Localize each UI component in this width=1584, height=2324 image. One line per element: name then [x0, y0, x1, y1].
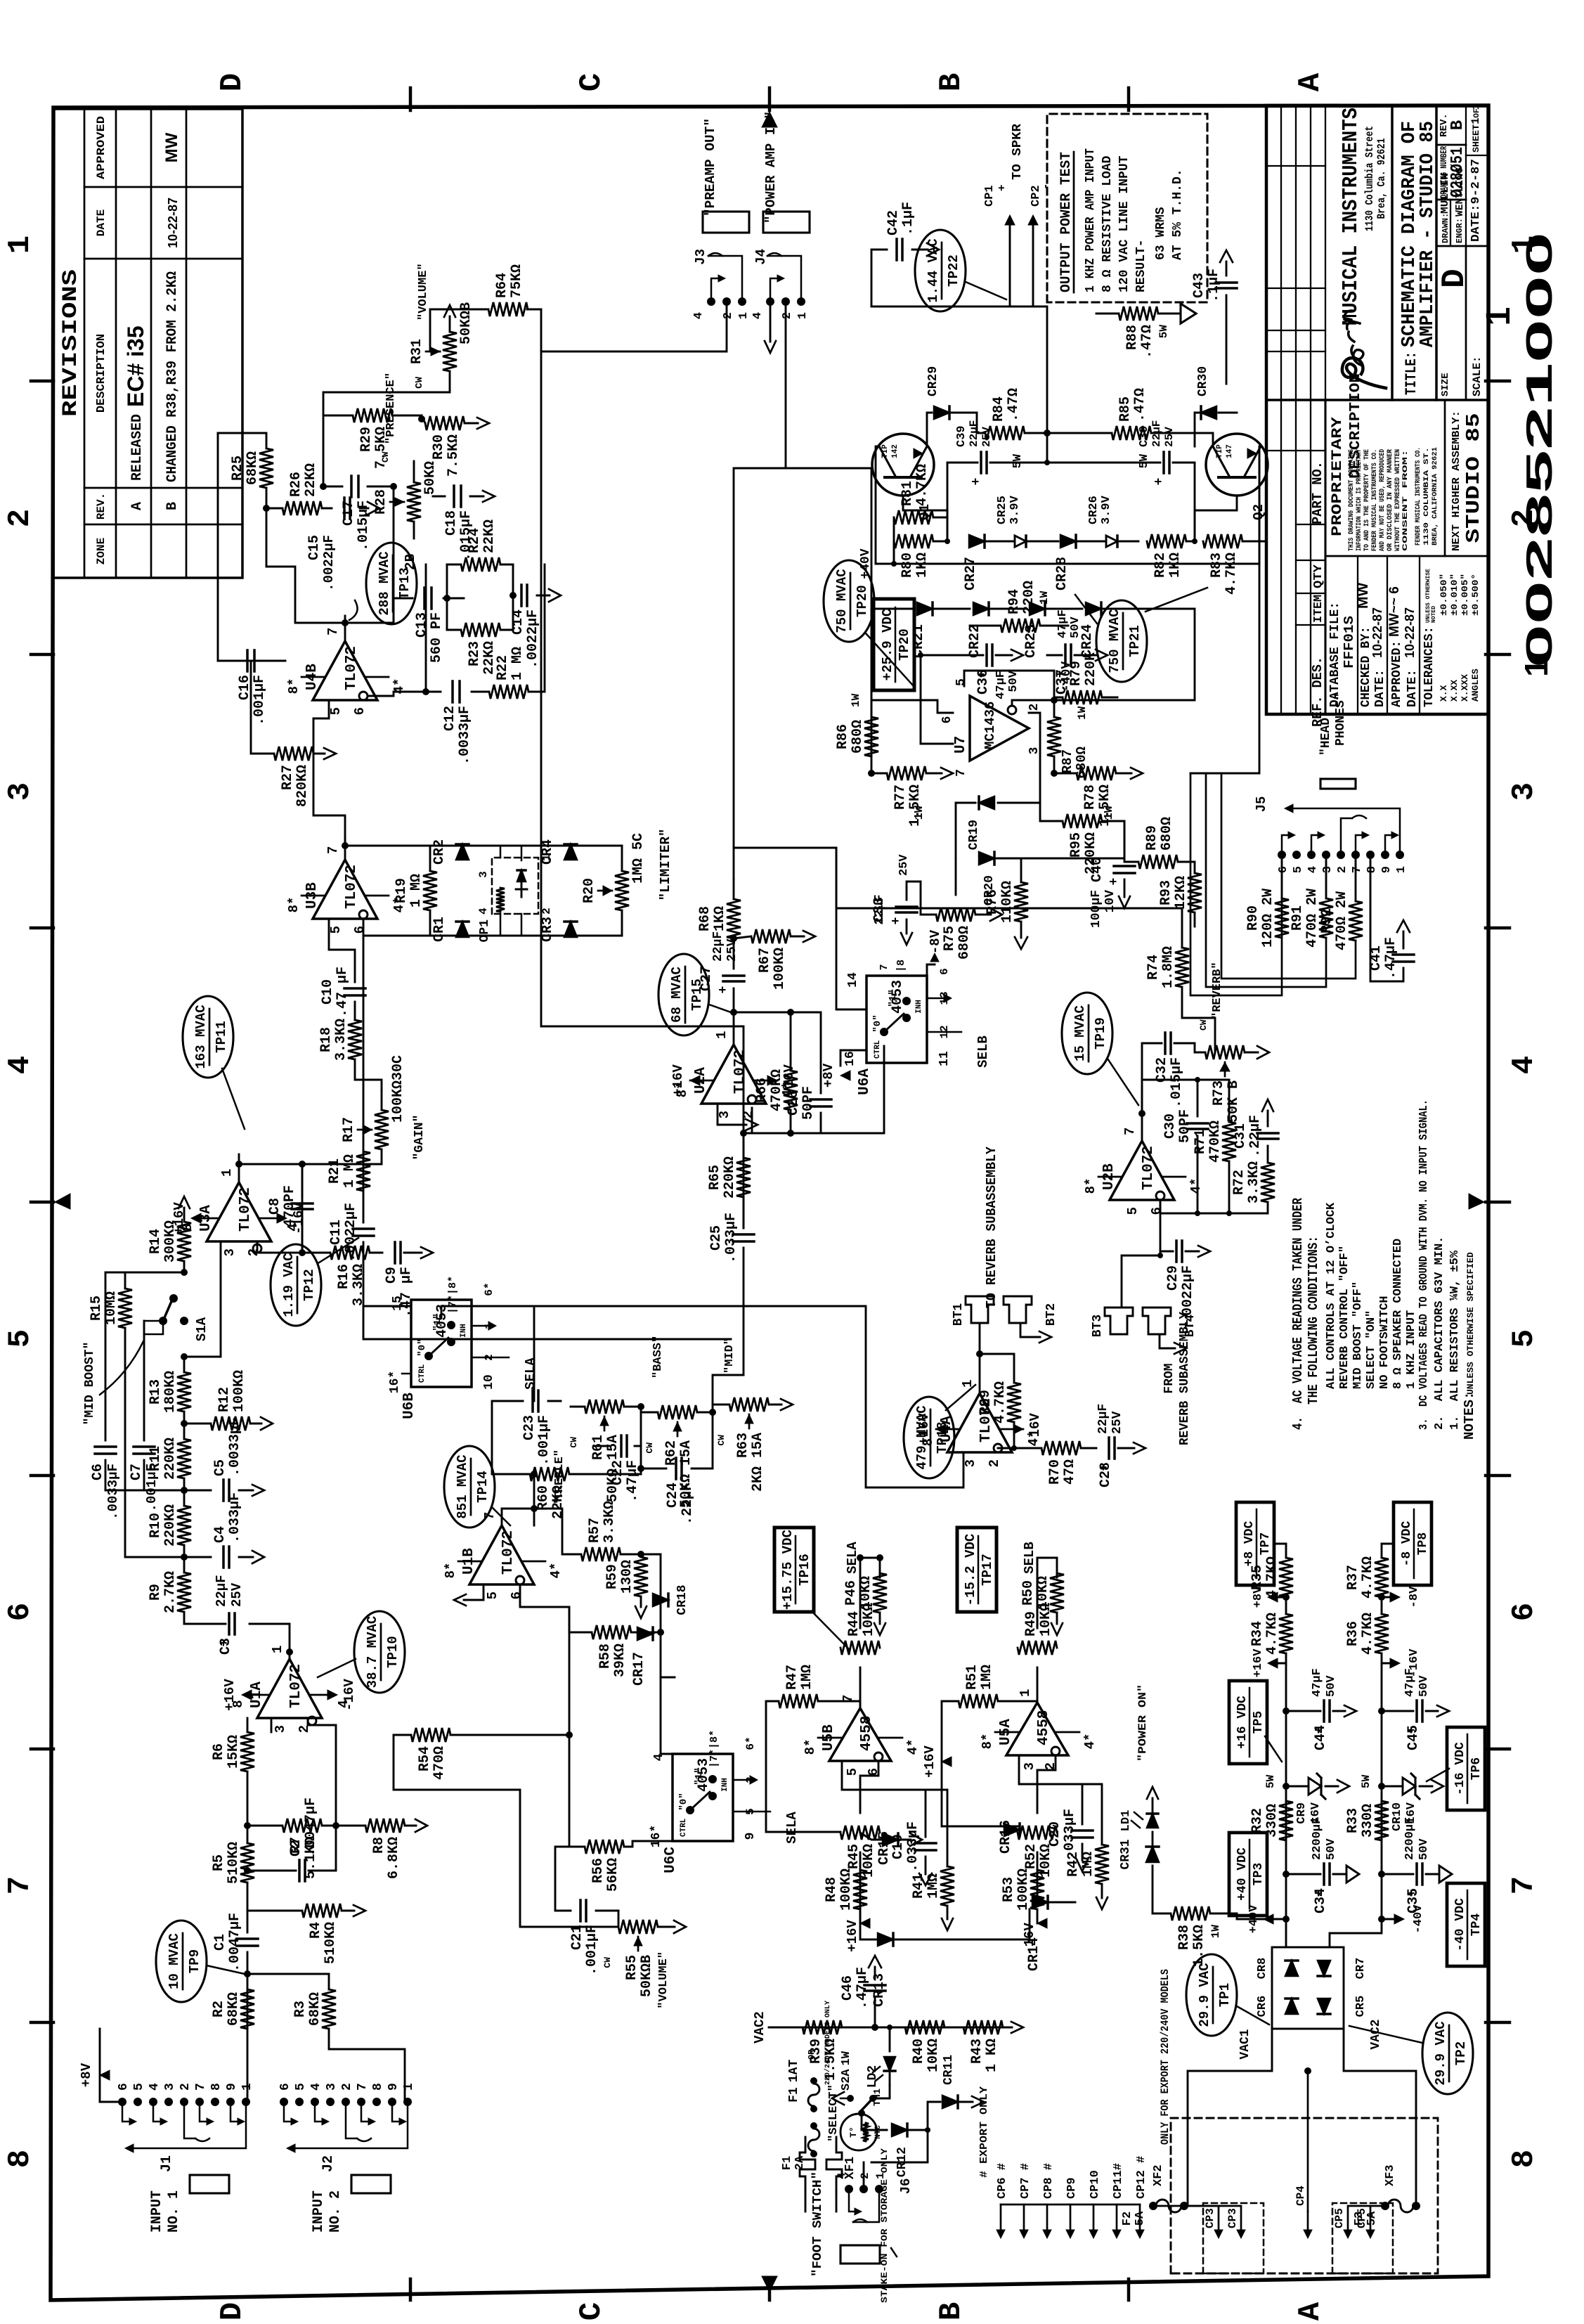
svg-text:F1: F1 — [787, 2087, 801, 2103]
svg-text:C36: C36 — [975, 669, 992, 695]
svg-text:CP7 #: CP7 # — [1019, 2163, 1032, 2199]
svg-text:3: 3 — [1022, 1762, 1037, 1770]
mid pot R63 — [729, 1397, 769, 1412]
svg-text:D: D — [215, 2302, 250, 2320]
svg-text:ANGLES: ANGLES — [1470, 669, 1481, 702]
svg-text:C39: C39 — [955, 425, 968, 447]
U6A to feedback node — [821, 1046, 884, 1133]
svg-text:STUDIO 85: STUDIO 85 — [1464, 413, 1485, 543]
output power test box — [1047, 114, 1207, 302]
svg-text:R86: R86 — [835, 724, 851, 749]
op-amp U1A — [257, 1659, 322, 1718]
svg-text:R95: R95 — [1068, 832, 1084, 858]
svg-text:TP8: TP8 — [1416, 1532, 1430, 1555]
svg-text:2: 2 — [297, 1725, 312, 1733]
size row — [1435, 105, 1438, 400]
resistor R23 22K — [461, 623, 500, 637]
svg-text:B: B — [934, 73, 969, 91]
svg-text:CP12 #: CP12 # — [1135, 2156, 1148, 2199]
svg-text:7: 7 — [954, 769, 968, 777]
svg-text:R27: R27 — [280, 765, 296, 790]
capacitor C40 100uF — [1114, 872, 1135, 874]
svg-text:1: 1 — [1018, 1689, 1033, 1697]
svg-text:22μF: 22μF — [214, 1575, 229, 1607]
+16V arrow — [1273, 1663, 1286, 1665]
svg-text:7: 7 — [482, 1512, 498, 1520]
op-amp U4B — [313, 641, 377, 700]
svg-text:5: 5 — [132, 2083, 146, 2091]
svg-text:50PF: 50PF — [1177, 1109, 1193, 1143]
svg-text:1W: 1W — [1209, 1925, 1222, 1939]
svg-text:TP20: TP20 — [897, 628, 912, 661]
svg-text:R72: R72 — [1231, 1170, 1247, 1195]
capacitor C31 .22uF — [1257, 1137, 1278, 1140]
bass pot R62 — [658, 1405, 697, 1419]
test point TP16 box — [774, 1528, 814, 1612]
diode CR3 — [564, 922, 577, 937]
svg-text:CR9: CR9 — [1295, 1802, 1309, 1824]
capacitor C21 .001uF — [579, 1900, 582, 1921]
svg-text:147: 147 — [1226, 444, 1234, 458]
resistor R11 220K — [177, 1439, 191, 1478]
diode CR19 — [998, 713, 1040, 803]
svg-text:R55: R55 — [624, 1955, 640, 1980]
svg-text:U6A: U6A — [857, 1069, 873, 1095]
svg-text:R30: R30 — [431, 434, 447, 460]
power amp in jack J4 — [763, 212, 810, 233]
svg-text:"1": "1" — [694, 1767, 705, 1785]
svg-text:PART NO.: PART NO. — [1310, 461, 1325, 524]
svg-text:CW: CW — [414, 376, 425, 388]
svg-text:C40: C40 — [1089, 857, 1105, 882]
svg-text:.001μF: .001μF — [536, 1415, 552, 1466]
svg-text:.001μF: .001μF — [584, 1925, 600, 1975]
svg-text:VAC2: VAC2 — [752, 2011, 767, 2044]
svg-text:"MID": "MID" — [723, 1338, 736, 1374]
svg-text:25V: 25V — [725, 938, 739, 962]
resistor R88 .47 5W — [1119, 306, 1158, 321]
U2A pin2 wire — [744, 1108, 752, 1133]
svg-text:100KΩ: 100KΩ — [838, 1868, 855, 1911]
test point TP4 box — [1447, 1883, 1485, 1966]
svg-text:INFORMATION WHICH IS PROPRIETA: INFORMATION WHICH IS PROPRIETARY — [1356, 449, 1363, 551]
svg-text:DATE:: DATE: — [1373, 669, 1387, 707]
capacitor C43 .1uF — [1216, 287, 1237, 290]
svg-text:C2: C2 — [288, 1840, 304, 1857]
svg-text:-16V: -16V — [1027, 1413, 1043, 1445]
svg-text:TL072: TL072 — [1141, 1146, 1157, 1190]
resistor R4 — [247, 1910, 302, 1912]
diode CR18 — [653, 1594, 668, 1606]
svg-text:TP12: TP12 — [301, 1269, 317, 1301]
svg-text:D: D — [1436, 269, 1473, 288]
svg-text:2: 2 — [540, 908, 553, 915]
svg-text:1KΩ: 1KΩ — [914, 553, 930, 578]
test point TP20 box — [874, 599, 914, 690]
svg-text:CR23: CR23 — [1023, 624, 1039, 658]
resistor R89 680 — [1138, 855, 1178, 869]
svg-text:TP1: TP1 — [1217, 1983, 1233, 2007]
svg-text:R51: R51 — [964, 1665, 980, 1690]
capacitor C20 .033uF — [1072, 1836, 1093, 1839]
diode ladder CR27 CR25 CR28 CR26 — [969, 535, 985, 548]
diode CR2 — [456, 844, 469, 860]
svg-text:C46: C46 — [840, 1975, 856, 2001]
resistor R65 220K — [736, 1158, 751, 1197]
test point TP15 — [658, 954, 709, 1035]
limiter rail A — [345, 846, 432, 852]
svg-text:C17: C17 — [341, 501, 357, 526]
U3A +16V — [191, 1213, 201, 1223]
svg-text:8: 8 — [1507, 2150, 1542, 2168]
svg-text:.0033μF: .0033μF — [105, 1464, 121, 1520]
svg-text:C45: C45 — [1406, 1725, 1422, 1750]
svg-text:100KΩ: 100KΩ — [231, 1370, 247, 1412]
svg-text:1.5KΩ: 1.5KΩ — [1191, 1925, 1207, 1967]
svg-text:1 MΩ: 1 MΩ — [342, 1154, 358, 1188]
test point TP5 box — [1229, 1681, 1267, 1764]
svg-text:CR22: CR22 — [967, 624, 983, 658]
svg-text:C15: C15 — [306, 535, 323, 560]
svg-text:+16 VDC: +16 VDC — [1235, 1696, 1249, 1749]
svg-text:330Ω: 330Ω — [1360, 1804, 1376, 1838]
svg-text:.0033μF: .0033μF — [457, 706, 473, 765]
resistor R8 — [336, 1825, 365, 1827]
node R5-R7 — [244, 1822, 251, 1829]
svg-text:TH1: TH1 — [872, 2089, 883, 2106]
svg-text:CW: CW — [602, 1957, 613, 1968]
svg-text:C18: C18 — [443, 510, 460, 536]
SELA label U6B — [472, 1357, 509, 1359]
svg-text:DRAWING NUMBER: DRAWING NUMBER — [1439, 146, 1449, 198]
footswitch J6 wires — [928, 2130, 984, 2189]
svg-text:851 MVAC: 851 MVAC — [455, 1454, 470, 1518]
svg-text:9: 9 — [744, 1833, 758, 1840]
svg-text:CR10: CR10 — [1391, 1802, 1404, 1831]
capacitor C24 .22uF — [675, 1458, 677, 1479]
svg-text:680Ω: 680Ω — [1159, 817, 1175, 851]
svg-text:29.9 VAC: 29.9 VAC — [1197, 1963, 1212, 2027]
svg-text:R75: R75 — [942, 926, 958, 951]
center arrows — [55, 1194, 70, 1209]
svg-text:# EXPORT ONLY: # EXPORT ONLY — [978, 2086, 990, 2178]
svg-text:"MID BOOST": "MID BOOST" — [83, 1342, 97, 1426]
svg-text:47μF: 47μF — [994, 671, 1008, 699]
svg-text:10 MVAC: 10 MVAC — [167, 1933, 182, 1989]
svg-text:B: B — [164, 502, 181, 510]
svg-text:R48: R48 — [824, 1877, 840, 1902]
svg-text:1 KHZ POWER AMP INPUT: 1 KHZ POWER AMP INPUT — [1084, 148, 1098, 292]
svg-text:5A: 5A — [1134, 2211, 1147, 2226]
U4A feedback R69 — [980, 1354, 1014, 1383]
svg-text:C11: C11 — [328, 1220, 344, 1245]
svg-text:.015μF: .015μF — [1169, 1057, 1185, 1108]
U1A +16V — [242, 1690, 252, 1700]
svg-text:R18: R18 — [318, 1027, 335, 1052]
wire BT3 to U2B — [1122, 1200, 1160, 1308]
+8V arrow mid — [1273, 1596, 1286, 1599]
svg-text:J2: J2 — [320, 2155, 337, 2172]
svg-text:R33: R33 — [1345, 1808, 1361, 1833]
svg-text:CP6 #: CP6 # — [996, 2163, 1009, 2199]
resistor R82 1K — [1147, 534, 1186, 548]
svg-text:R74: R74 — [1145, 955, 1162, 980]
U1B pin5 wire — [464, 1584, 483, 1600]
svg-text:TIP: TIP — [1216, 444, 1224, 458]
U3B pin6 circle — [359, 910, 368, 919]
reverb pot R73 — [1195, 1043, 1205, 1052]
svg-text:25V: 25V — [980, 427, 993, 447]
svg-text:TP18: TP18 — [935, 1421, 950, 1454]
svg-text:6: 6 — [940, 716, 954, 724]
headphone feed wires — [1190, 773, 1282, 995]
svg-text:TP3: TP3 — [1252, 1863, 1266, 1885]
svg-text:3: 3 — [163, 2083, 177, 2091]
svg-text:2: 2 — [340, 2083, 354, 2091]
svg-text:47μF: 47μF — [1056, 609, 1070, 638]
svg-text:R17: R17 — [341, 1117, 357, 1142]
svg-text:MW: MW — [1355, 583, 1371, 609]
svg-text:±0.050": ±0.050" — [1439, 574, 1449, 616]
svg-text:R85: R85 — [1117, 396, 1134, 422]
svg-text:ONLY FOR EXPORT 220/240V MODEL: ONLY FOR EXPORT 220/240V MODELS — [1159, 1969, 1171, 2145]
resistor R56 56K — [585, 1840, 624, 1854]
svg-text:C6: C6 — [90, 1464, 106, 1480]
svg-text:4.7KΩ: 4.7KΩ — [1223, 553, 1240, 595]
svg-text:50K B: 50K B — [1226, 1080, 1242, 1123]
svg-text:CR1: CR1 — [431, 917, 448, 942]
svg-text:UNLESS OTHERWISE SPECIFIED: UNLESS OTHERWISE SPECIFIED — [1465, 1252, 1476, 1395]
svg-text:C35: C35 — [1406, 1888, 1422, 1913]
svg-text:510KΩ: 510KΩ — [323, 1922, 339, 1964]
svg-text:5: 5 — [1507, 1329, 1542, 1348]
U2B feedback C30 — [1160, 1136, 1197, 1213]
test point TP17 box — [957, 1528, 997, 1612]
svg-text:3: 3 — [1507, 782, 1542, 801]
svg-text:R29: R29 — [358, 427, 375, 452]
resistor R81 4.7K — [894, 510, 933, 524]
svg-text:"0": "0" — [678, 1793, 689, 1810]
svg-text:FROM: FROM — [1162, 1363, 1176, 1393]
svg-text:+16V: +16V — [922, 1745, 937, 1778]
wire to U6C net — [661, 1632, 675, 1677]
svg-text:7.5KΩ: 7.5KΩ — [446, 434, 462, 477]
CP4 arrow — [1307, 2212, 1309, 2233]
capacitor C37 47uF — [1064, 645, 1067, 666]
svg-text:C: C — [574, 73, 609, 91]
svg-text:R36: R36 — [1345, 1621, 1361, 1646]
svg-text:AT 5% T.H.D.: AT 5% T.H.D. — [1171, 169, 1185, 260]
revision table — [53, 109, 242, 578]
svg-text:R77: R77 — [892, 785, 909, 810]
svg-text:10: 10 — [482, 1374, 496, 1390]
svg-text:-40V: -40V — [1060, 661, 1074, 692]
svg-text:CR19: CR19 — [967, 820, 981, 850]
svg-text:15KΩ: 15KΩ — [226, 1735, 242, 1769]
svg-text:1: 1 — [219, 1169, 235, 1177]
proprietary block — [1325, 555, 1488, 557]
svg-text:"POWER AMP IN": "POWER AMP IN" — [763, 111, 779, 224]
test point TP22 — [915, 230, 966, 311]
svg-text:TP20: TP20 — [855, 585, 870, 617]
svg-text:R84: R84 — [991, 396, 1007, 422]
svg-text:RESULT-: RESULT- — [1134, 239, 1148, 292]
svg-text:FENDER MUSICAL INSTRUMENTS CO.: FENDER MUSICAL INSTRUMENTS CO. — [1371, 449, 1379, 551]
svg-text:A: A — [129, 502, 145, 510]
limiter rail B — [363, 919, 622, 936]
svg-text:1 KHZ INPUT: 1 KHZ INPUT — [1405, 1310, 1418, 1389]
svg-text:NOTED: NOTED — [1431, 606, 1437, 623]
zener CR10 16V — [1378, 1783, 1385, 1790]
svg-text:D: D — [215, 73, 250, 91]
svg-text:CW: CW — [644, 1442, 655, 1454]
select switch S2A — [877, 2085, 890, 2098]
svg-text:100μF: 100μF — [1089, 890, 1103, 928]
svg-text:5: 5 — [328, 707, 344, 715]
svg-text:1.8MΩ: 1.8MΩ — [1160, 946, 1176, 988]
svg-text:A: A — [1293, 2302, 1328, 2320]
op-amp U7 MC1436 — [970, 696, 1029, 761]
svg-text:16*: 16* — [388, 1371, 402, 1393]
svg-text:3: 3 — [717, 1111, 732, 1118]
capacitor C46 .47uF — [874, 1998, 876, 2027]
resistor R48 100K — [853, 1870, 867, 1909]
capacitor C25 .033uF — [733, 1240, 754, 1243]
U2A -16V — [767, 1076, 777, 1085]
-40V arrow — [1382, 1918, 1398, 1920]
svg-text:+16V: +16V — [222, 1679, 238, 1711]
svg-text:"PREAMP OUT": "PREAMP OUT" — [703, 118, 718, 217]
capacitor C6 .0033 — [95, 1452, 116, 1455]
svg-text:2KΩ 15A: 2KΩ 15A — [750, 1433, 766, 1492]
svg-text:1: 1 — [737, 312, 751, 319]
diode CR14 — [1032, 1896, 1048, 1909]
resistor R58 39K — [592, 1625, 631, 1639]
svg-text:4. AC VOLTAGE READINGS TAKEN: 4. AC VOLTAGE READINGS TAKEN UNDER — [1290, 1198, 1306, 1430]
input jack J1 — [118, 2098, 126, 2106]
svg-text:7: 7 — [325, 846, 341, 854]
svg-text:"0": "0" — [417, 1338, 428, 1356]
svg-text:+: + — [970, 478, 984, 486]
svg-text:4: 4 — [692, 312, 706, 319]
svg-text:R43: R43 — [969, 2039, 985, 2064]
svg-text:DATE:: DATE: — [1406, 669, 1420, 707]
svg-text:3.3KΩ: 3.3KΩ — [333, 1019, 349, 1061]
svg-text:NEXT HIGHER ASSEMBLY:: NEXT HIGHER ASSEMBLY: — [1450, 411, 1462, 551]
capacitor C15 .0022uF — [343, 498, 346, 519]
svg-text:"0": "0" — [872, 1014, 883, 1032]
svg-text:R53: R53 — [1001, 1877, 1017, 1902]
svg-text:1 MΩ: 1 MΩ — [509, 647, 526, 680]
svg-text:25V: 25V — [1110, 1411, 1124, 1434]
resistor R51 1M — [959, 1694, 998, 1708]
svg-text:5W: 5W — [1264, 1774, 1277, 1788]
svg-text:4: 4 — [1306, 866, 1320, 873]
svg-text:|7*|8*: |7*|8* — [708, 1730, 720, 1768]
svg-text:4.7KΩ: 4.7KΩ — [992, 1381, 1008, 1424]
wire J2 to R3 — [329, 2029, 405, 2102]
svg-text:10KΩ: 10KΩ — [861, 1603, 877, 1637]
svg-text:TL072: TL072 — [238, 1187, 254, 1232]
svg-text:.033μF: .033μF — [905, 1821, 921, 1872]
svg-text:16: 16 — [843, 1051, 857, 1066]
U4B output — [344, 616, 346, 641]
svg-text:J5: J5 — [1254, 796, 1269, 813]
svg-text:+: + — [996, 184, 1008, 191]
svg-text:680Ω: 680Ω — [1074, 747, 1089, 779]
transistor Q1 TIP142 — [872, 434, 934, 496]
svg-text:C8: C8 — [267, 1198, 283, 1215]
+40V arrow — [1269, 1918, 1286, 1920]
svg-text:C9: C9 — [384, 1267, 400, 1284]
resistor R75 680 — [936, 908, 975, 922]
svg-text:R28: R28 — [373, 489, 389, 515]
svg-text:3.9V: 3.9V — [1008, 495, 1022, 524]
svg-text:C: C — [574, 2302, 609, 2320]
svg-text:163 MVAC: 163 MVAC — [193, 1005, 209, 1069]
svg-text:REVERB CONTROL "OFF": REVERB CONTROL "OFF" — [1338, 1246, 1351, 1389]
svg-text:CP3: CP3 — [1204, 2208, 1216, 2228]
svg-text:R26: R26 — [288, 472, 304, 497]
svg-text:TIP: TIP — [881, 444, 890, 458]
test point TP21 oval — [1096, 600, 1147, 682]
svg-text:R5: R5 — [211, 1854, 227, 1871]
svg-text:MW~~ 6: MW~~ 6 — [1387, 586, 1402, 637]
svg-text:CR27: CR27 — [963, 557, 979, 590]
svg-text:C4: C4 — [212, 1526, 228, 1543]
svg-text:6.8KΩ: 6.8KΩ — [386, 1837, 402, 1879]
svg-text:+16V: +16V — [670, 1064, 686, 1097]
test point TP14 — [444, 1446, 495, 1528]
svg-text:R40: R40 — [911, 2039, 927, 2064]
capacitor C32 .015uF — [1164, 1033, 1167, 1054]
+40 rail — [1285, 1663, 1287, 1919]
VBE diode string CR21-24 — [871, 609, 873, 700]
svg-text:-15.2 VDC: -15.2 VDC — [963, 1534, 978, 1606]
svg-text:C44: C44 — [1313, 1725, 1329, 1750]
capacitor C3 22uF — [249, 1623, 290, 1625]
svg-text:1: 1 — [796, 312, 810, 319]
svg-text:CW: CW — [569, 1437, 579, 1448]
test point TP19 — [1062, 993, 1112, 1074]
svg-text:OUTPUT POWER TEST: OUTPUT POWER TEST — [1058, 152, 1075, 292]
svg-text:-8V: -8V — [928, 929, 943, 954]
svg-text:7: 7 — [1351, 866, 1364, 873]
svg-text:CTRL: CTRL — [874, 1040, 882, 1059]
resistor R13 180K — [177, 1372, 191, 1412]
svg-text:C26: C26 — [786, 1090, 802, 1116]
U6B input wire — [383, 1305, 411, 1308]
svg-text:SELA: SELA — [784, 1812, 800, 1844]
svg-text:CR16: CR16 — [998, 1820, 1014, 1854]
svg-text:25V: 25V — [1163, 427, 1176, 447]
volume pot R31 — [443, 332, 457, 371]
resistor R3 — [322, 1989, 336, 2029]
svg-text:R83: R83 — [1209, 553, 1225, 578]
svg-text:"VOLUME": "VOLUME" — [657, 1951, 670, 2009]
svg-text:R67: R67 — [757, 948, 773, 973]
svg-text:.015μF: .015μF — [458, 510, 474, 561]
svg-text:68KΩ: 68KΩ — [226, 1992, 242, 2026]
svg-text:8*: 8* — [286, 897, 301, 913]
capacitor C28 22uF — [1108, 1438, 1110, 1459]
svg-text:15: 15 — [391, 1296, 405, 1311]
svg-text:C31: C31 — [1233, 1123, 1249, 1149]
resistor R54 470 — [411, 1728, 450, 1742]
svg-text:2B: 2B — [403, 554, 418, 570]
svg-text:B: B — [1448, 120, 1467, 130]
test point TP3 box — [1229, 1833, 1267, 1916]
